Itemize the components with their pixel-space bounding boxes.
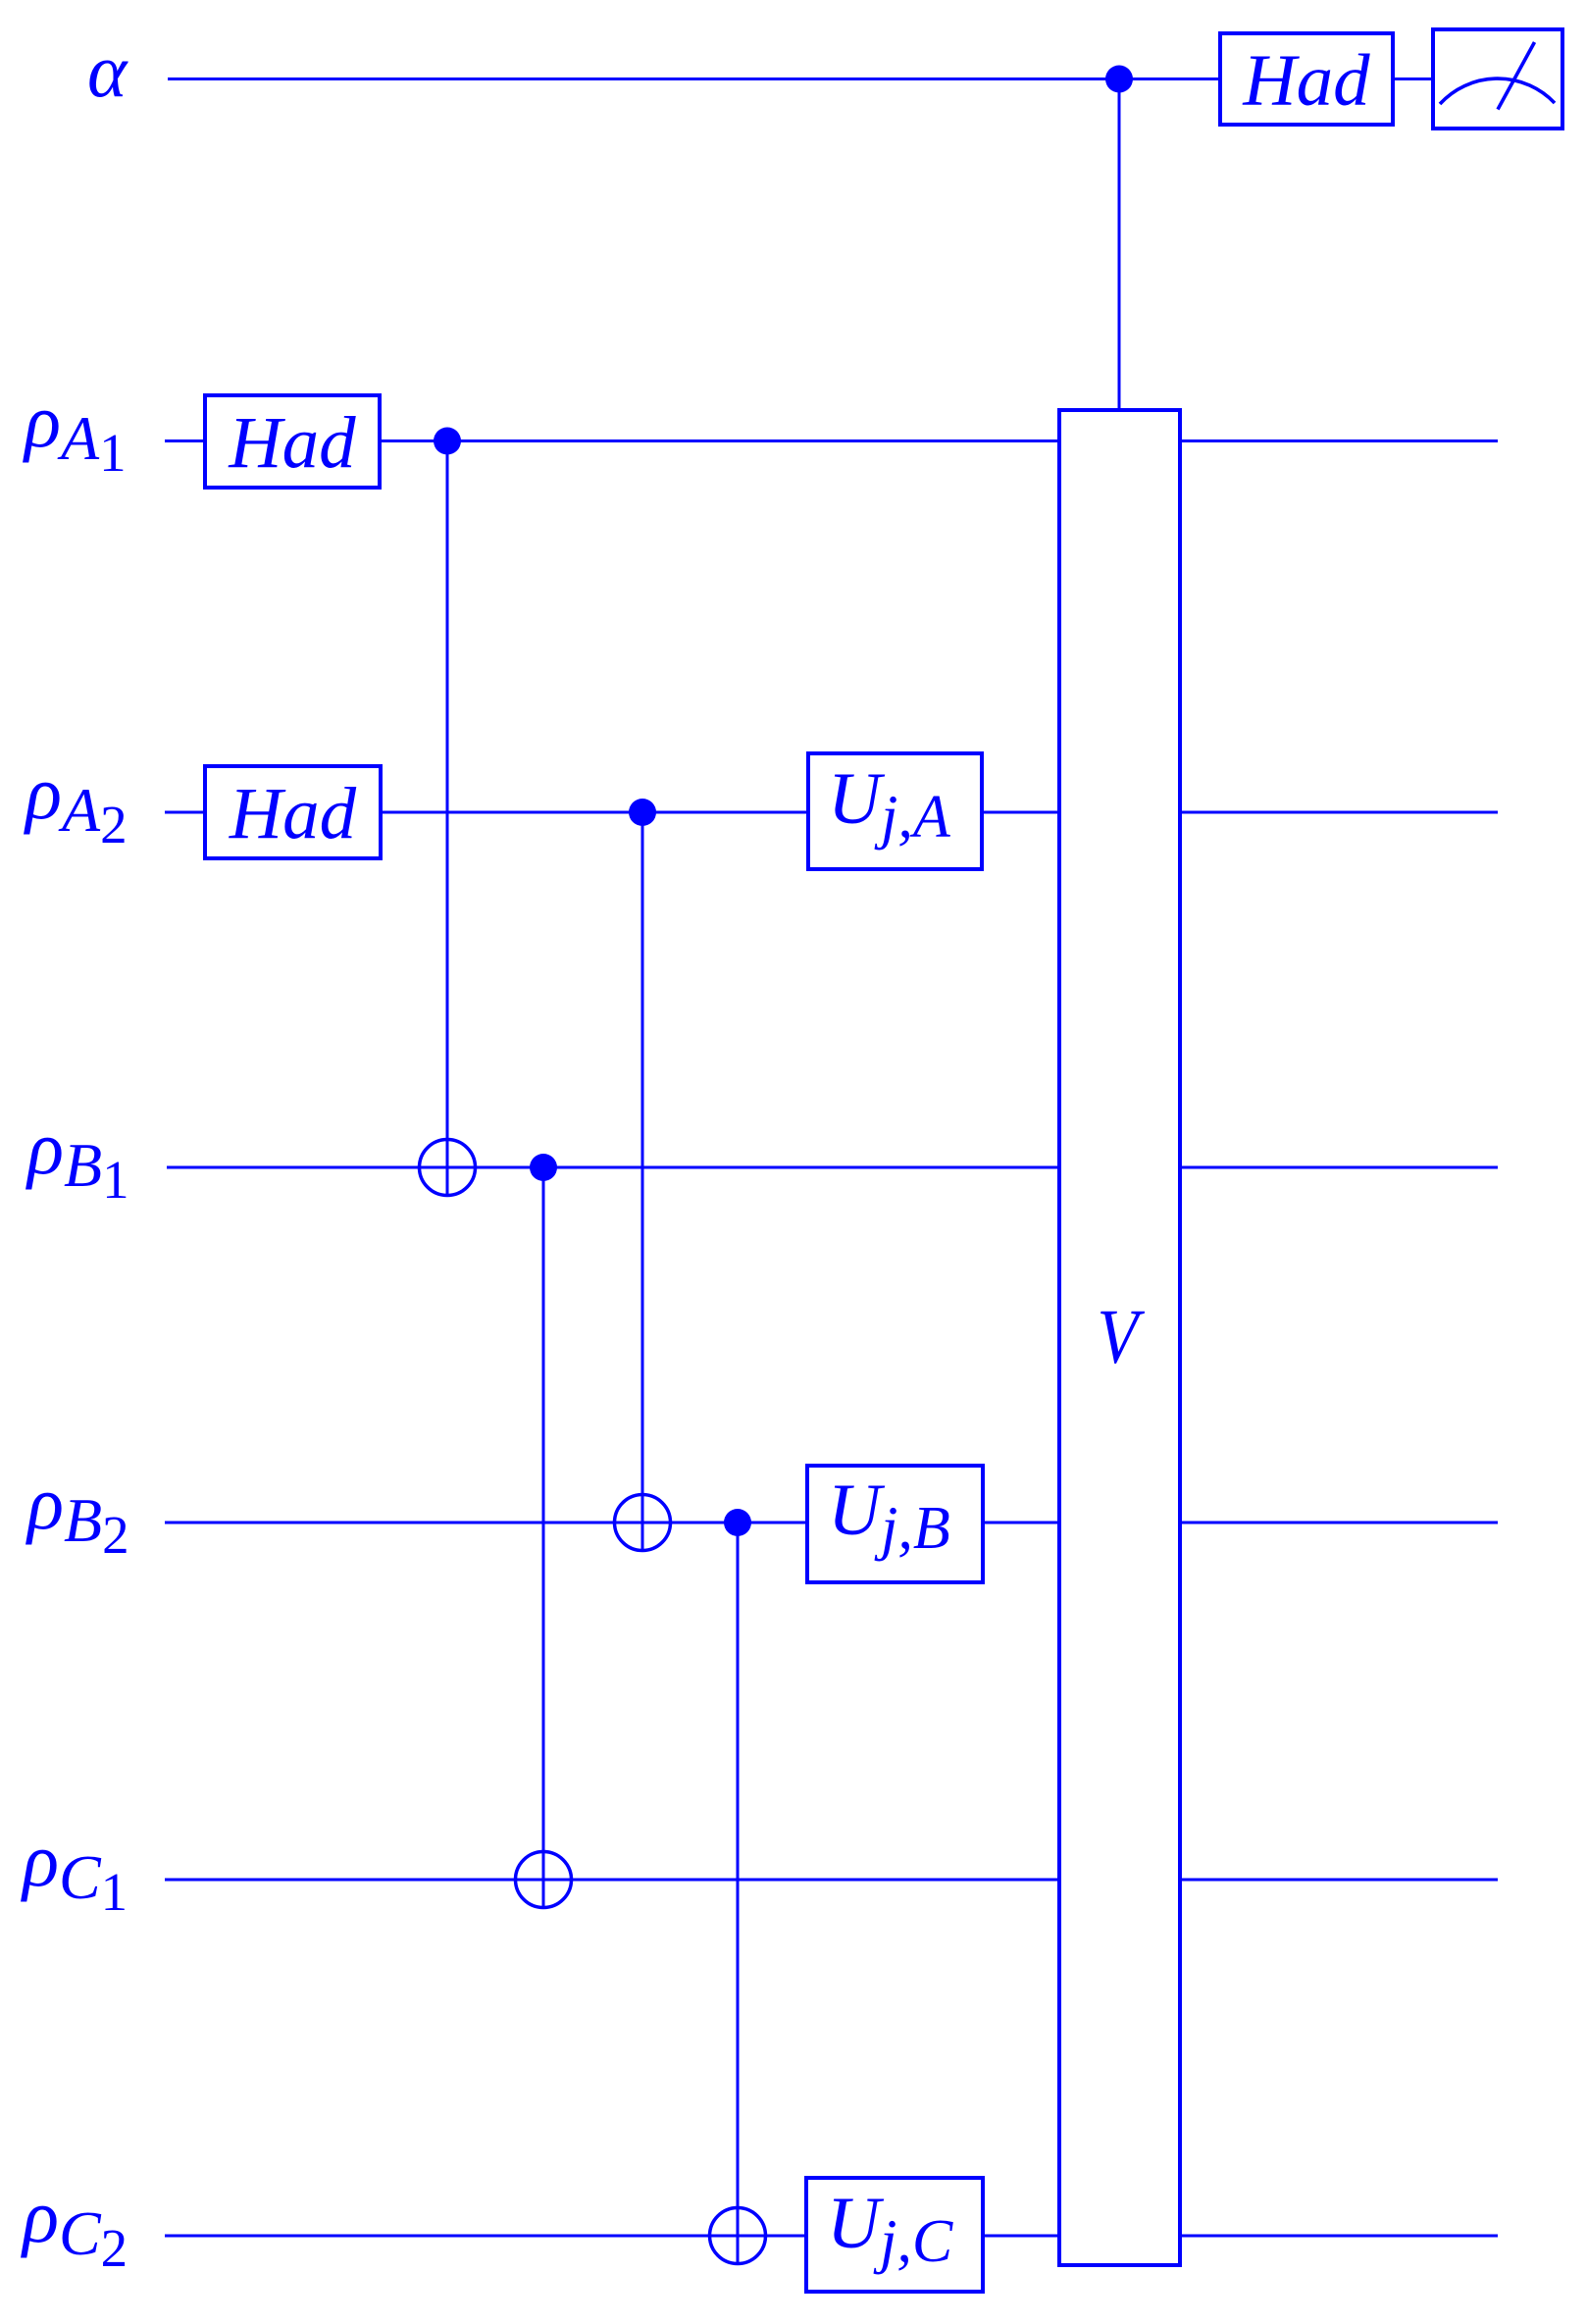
gate box Had on alpha — [1220, 33, 1393, 125]
control dot on B1 — [530, 1154, 557, 1181]
wire rho_C1 — [165, 1879, 1498, 1882]
meter needle — [1498, 42, 1535, 110]
svg-text:Had: Had — [229, 773, 357, 854]
wire rho_A1 — [165, 439, 1498, 442]
svg-text:Had: Had — [228, 402, 356, 484]
XOR target on B1 — [420, 1140, 476, 1196]
wire alpha — [168, 77, 1431, 80]
control line A1 to B1 XOR — [446, 441, 449, 1198]
gate box U_{j,A} — [808, 753, 982, 869]
control line A2 to B2 XOR — [641, 812, 644, 1552]
gate box Had on A2 — [205, 766, 381, 858]
gate box Had on A1 — [205, 395, 380, 488]
XOR target on C1 — [516, 1852, 572, 1908]
gate box U_{j,C} — [806, 2178, 983, 2292]
control dot on A2 — [629, 799, 656, 826]
svg-text:V: V — [1098, 1295, 1146, 1380]
svg-text:α: α — [87, 28, 128, 113]
wire rho_B1 — [167, 1166, 1498, 1169]
gate box U_{j,B} — [807, 1466, 983, 1582]
XOR target on B2 — [615, 1495, 671, 1551]
meter arc — [1440, 78, 1555, 104]
wire rho_A2 — [165, 811, 1498, 814]
control line B2 to C2 XOR — [737, 1523, 740, 2265]
wire rho_B2 — [165, 1522, 1498, 1524]
measurement meter box — [1433, 29, 1562, 129]
wire rho_C2 — [165, 2235, 1498, 2238]
control line alpha to V — [1118, 79, 1121, 411]
control dot on A1 — [434, 428, 461, 455]
control dot on alpha — [1105, 66, 1133, 93]
svg-text:Had: Had — [1242, 40, 1370, 122]
control line B1 to C1 XOR — [542, 1167, 545, 1909]
XOR target on C2 — [710, 2208, 766, 2264]
control dot on B2 — [724, 1509, 751, 1536]
gate box V (multi-qubit) — [1059, 410, 1180, 2265]
